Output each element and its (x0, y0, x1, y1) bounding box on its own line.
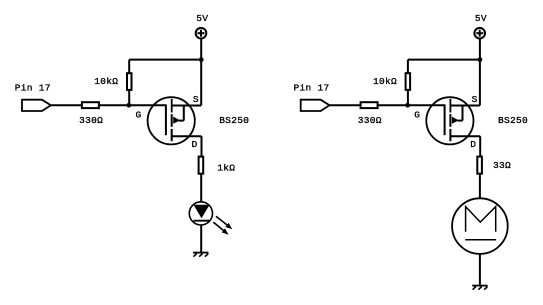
svg-text:S: S (193, 94, 199, 105)
resistor 1kΩ (left) (199, 157, 204, 174)
svg-text:10kΩ: 10kΩ (94, 76, 118, 87)
wire (right) (378, 104, 445, 106)
ground (left) (193, 253, 208, 257)
resistor 10kΩ (right) (406, 73, 411, 90)
wire (left) (51, 104, 82, 106)
svg-text:33Ω: 33Ω (493, 160, 511, 171)
svg-text:G: G (136, 109, 142, 120)
svg-text:10kΩ: 10kΩ (373, 76, 397, 87)
svg-text:D: D (470, 139, 476, 150)
wire (right) (330, 104, 361, 106)
wire (left) (200, 174, 202, 203)
pin terminal Pin 17 (left) (22, 100, 51, 111)
svg-text:330Ω: 330Ω (358, 115, 382, 126)
svg-text:Pin 17: Pin 17 (15, 83, 51, 94)
svg-text:1kΩ: 1kΩ (217, 163, 235, 174)
svg-text:S: S (472, 94, 478, 105)
svg-text:G: G (414, 109, 420, 120)
resistor 330Ω (left) (82, 102, 99, 108)
LED D1 (left) (189, 202, 232, 235)
svg-text:5V: 5V (475, 13, 487, 24)
transistor BS250 P-MOSFET (left) (148, 97, 202, 144)
wire (left) (201, 136, 203, 156)
svg-text:Pin 17: Pin 17 (294, 83, 330, 94)
resistor 10kΩ (left) (127, 73, 132, 90)
transistor BS250 P-MOSFET (right) (426, 97, 480, 144)
power +5V terminal (left) (196, 28, 207, 39)
svg-text:BS250: BS250 (498, 115, 528, 126)
junction node (left) (199, 57, 204, 62)
wire (right) (479, 38, 481, 59)
wire (left) (200, 225, 202, 253)
wire (right) (479, 254, 481, 285)
svg-text:D: D (192, 139, 198, 150)
wire (left) (129, 59, 201, 61)
motor M1 (right) (452, 198, 508, 254)
power +5V terminal (right) (474, 28, 485, 39)
svg-text:BS250: BS250 (219, 115, 249, 126)
junction node (right) (478, 57, 483, 62)
wire (left) (99, 104, 166, 106)
wire (right) (408, 59, 480, 61)
pin terminal Pin 17 (right) (301, 100, 330, 111)
svg-text:330Ω: 330Ω (79, 115, 103, 126)
wire (right) (479, 174, 481, 199)
svg-text:5V: 5V (196, 13, 208, 24)
wire (right) (407, 60, 409, 74)
resistor 330Ω (right) (361, 102, 378, 108)
wire (right) (479, 136, 481, 156)
resistor 33Ω (right) (477, 157, 482, 174)
wire (left) (128, 60, 130, 74)
wire (right) (479, 60, 481, 106)
wire (left) (200, 60, 202, 106)
ground (right) (472, 286, 487, 290)
wire (left) (200, 38, 202, 59)
junction node G (right) (405, 103, 410, 108)
junction node G (left) (126, 103, 131, 108)
wire (left) (128, 90, 130, 105)
wire (right) (407, 90, 409, 105)
